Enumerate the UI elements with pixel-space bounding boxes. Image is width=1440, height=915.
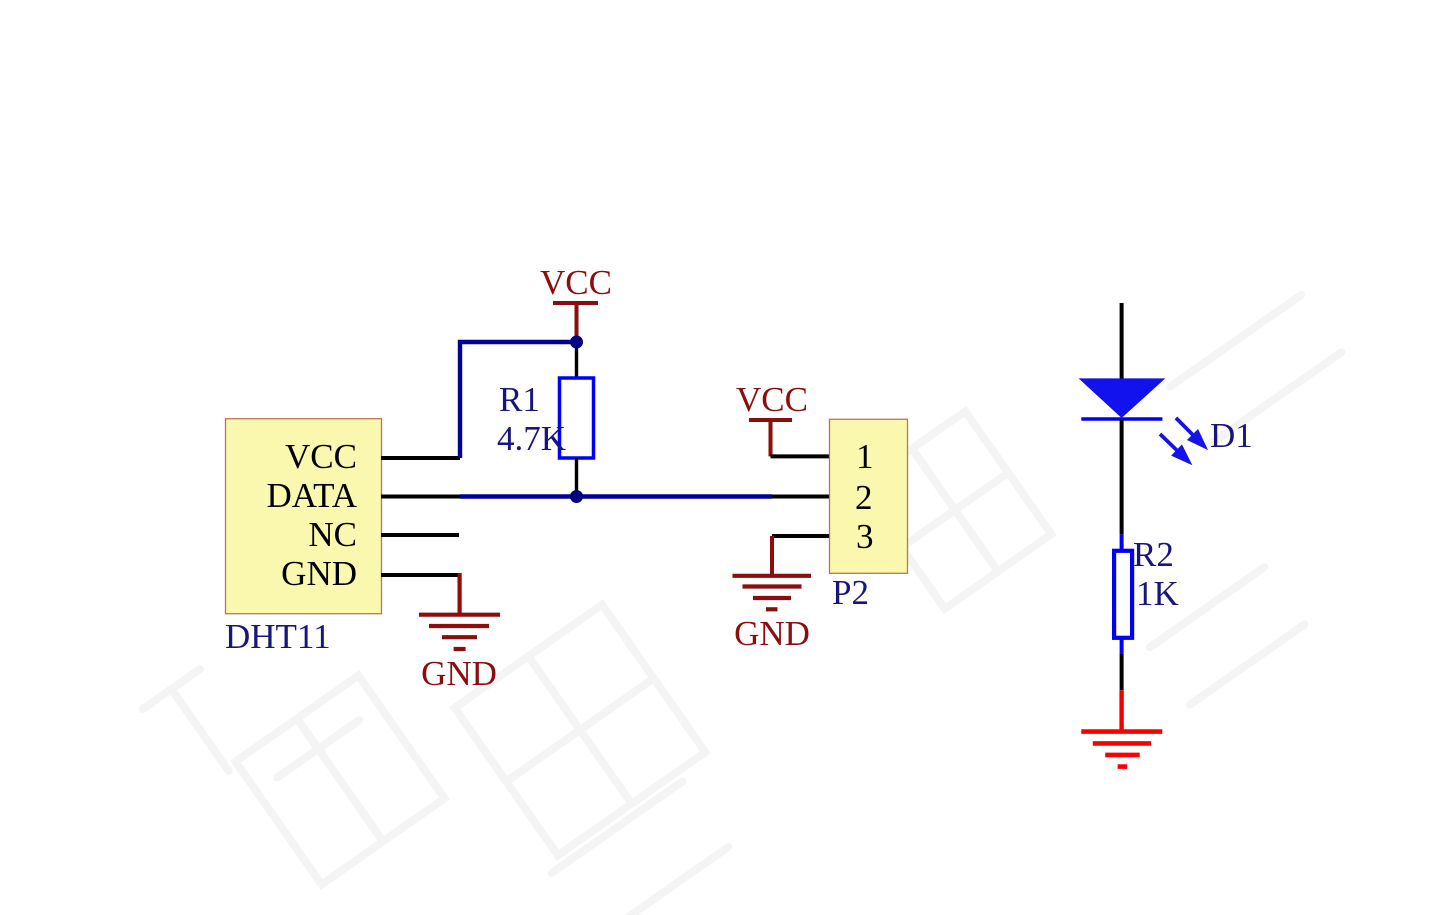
svg-text:GND: GND <box>281 554 357 593</box>
svg-text:1K: 1K <box>1136 574 1179 613</box>
svg-text:2: 2 <box>855 478 873 517</box>
svg-text:GND: GND <box>734 614 810 653</box>
svg-text:VCC: VCC <box>736 380 808 419</box>
svg-text:R2: R2 <box>1133 535 1174 574</box>
svg-text:DATA: DATA <box>266 476 357 515</box>
svg-text:R1: R1 <box>499 380 540 419</box>
svg-text:P2: P2 <box>832 573 869 612</box>
svg-text:VCC: VCC <box>540 263 612 302</box>
svg-text:VCC: VCC <box>285 437 357 476</box>
svg-text:NC: NC <box>308 515 357 554</box>
svg-text:3: 3 <box>856 517 874 556</box>
svg-text:GND: GND <box>421 654 497 693</box>
svg-text:DHT11: DHT11 <box>225 617 331 656</box>
svg-text:4.7K: 4.7K <box>497 419 566 458</box>
svg-text:1: 1 <box>856 437 874 476</box>
svg-text:D1: D1 <box>1210 416 1253 455</box>
